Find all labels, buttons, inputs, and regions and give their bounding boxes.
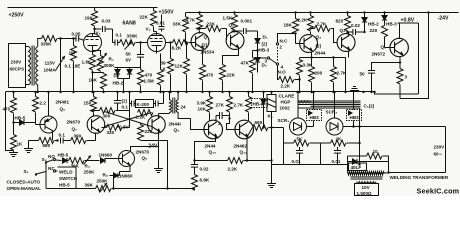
resistor 220 vertical (140, 123, 142, 125)
svg-text:(2): (2) (316, 44, 322, 49)
resistor 47K (256, 49, 258, 51)
cap 0.03 (95, 28, 102, 30)
resistor 8.2K (166, 42, 173, 44)
transistor Q4 (337, 34, 355, 52)
NC contact (53, 170, 55, 172)
wire left edge (6, 92, 14, 151)
ground on bus (350, 87, 359, 91)
HB3 box left (307, 110, 322, 121)
svg-text:470: 470 (3, 107, 11, 112)
svg-text:250K: 250K (97, 179, 109, 184)
svg-text:D₁: D₁ (263, 35, 268, 40)
svg-text:2.2K: 2.2K (281, 84, 291, 89)
svg-text:33K: 33K (173, 22, 182, 27)
resistor 2.7K (309, 27, 311, 29)
svg-text:10V: 10V (362, 185, 371, 190)
svg-text:6.8K: 6.8K (200, 178, 210, 183)
svg-text:12K: 12K (175, 64, 184, 69)
resistor 19K (94, 8, 96, 11)
V1 cathode chain 1.8K (92, 46, 94, 55)
svg-text:150: 150 (84, 101, 92, 106)
svg-text:2N462: 2N462 (234, 144, 248, 149)
svg-text:SWITCH: SWITCH (59, 176, 78, 181)
svg-text:230V: 230V (434, 145, 446, 150)
svg-text:24: 24 (181, 105, 187, 110)
left SCR vertical (283, 128, 285, 165)
svg-text:10MA: 10MA (44, 68, 57, 73)
svg-text:Q₆: Q₆ (60, 107, 66, 112)
upper-right nested wires (375, 92, 419, 94)
wire (26, 46, 29, 48)
svg-text:HB-5: HB-5 (15, 116, 26, 121)
svg-text:330: 330 (107, 130, 115, 135)
svg-text:CLOSED-AUTO: CLOSED-AUTO (7, 180, 41, 185)
emitter rail wire (300, 57, 346, 59)
transistor Q1 (191, 33, 209, 51)
svg-text:470: 470 (145, 73, 153, 78)
svg-text:0.01: 0.01 (156, 21, 165, 26)
diodes (2) HB-2 (140, 57, 142, 67)
transistor Q7 2N670 (87, 116, 105, 134)
svg-text:2K: 2K (336, 137, 343, 142)
transistor Q8 2N670 (119, 151, 135, 167)
svg-text:K₁: K₁ (268, 114, 273, 119)
svg-text:N.O: N.O (278, 70, 287, 75)
cap 0.05 (74, 38, 76, 40)
Q6 base2 line down to 680 (52, 133, 54, 141)
Q5 collector up to +0.8V node (399, 23, 401, 39)
svg-text:0.03: 0.03 (102, 19, 111, 24)
switch S2 (45, 161, 47, 163)
svg-text:0.001: 0.001 (241, 19, 253, 24)
svg-text:2N672: 2N672 (372, 52, 386, 57)
pot R2 330K (120, 40, 136, 46)
svg-text:220: 220 (370, 28, 378, 33)
Q1 emitter resistor 470 (202, 51, 204, 65)
svg-text:22K: 22K (227, 73, 236, 78)
cross-coupling wires (105, 112, 152, 127)
K-200 box with caps (128, 91, 130, 93)
svg-text:5K: 5K (297, 137, 304, 142)
svg-text:(2): (2) (122, 99, 128, 104)
svg-text:C₁(2): C₁(2) (364, 104, 375, 109)
svg-text:40LF: 40LF (351, 165, 362, 170)
svg-text:1.8K: 1.8K (82, 60, 92, 65)
svg-text:HB-3: HB-3 (253, 102, 264, 107)
diodes HB-3 pair (262, 91, 264, 93)
svg-text:(2): (2) (262, 42, 268, 47)
svg-text:R₁: R₁ (109, 57, 114, 62)
cap 0.01 right (337, 147, 339, 151)
lamp 0.1 19E (variable element) (60, 39, 62, 93)
svg-text:115V: 115V (45, 61, 56, 66)
svg-text:200: 200 (315, 71, 323, 76)
svg-text:3: 3 (265, 59, 268, 64)
transformer T1 (29, 46, 38, 86)
switch S1 (35, 173, 37, 175)
resistor 2.2K from contact 4 (278, 65, 279, 80)
ground 2 (28, 141, 30, 149)
svg-text:19K: 19K (85, 16, 94, 21)
svg-text:0.1: 0.1 (122, 105, 129, 110)
svg-text:2.2: 2.2 (40, 101, 47, 106)
svg-text:330K: 330K (127, 34, 139, 39)
40LF diode branch (347, 156, 349, 173)
svg-text:250K: 250K (84, 170, 96, 175)
SCR1 (297, 92, 299, 118)
svg-text:2N44: 2N44 (205, 144, 216, 149)
Q8 emitter (120, 166, 131, 172)
svg-text:50: 50 (360, 72, 366, 77)
-24V top rail (186, 12, 459, 14)
svg-text:0.05: 0.05 (72, 32, 81, 37)
svg-text:600: 600 (255, 120, 263, 125)
resistor 820 (347, 13, 349, 16)
svg-text:SCR₁: SCR₁ (278, 118, 290, 123)
svg-text:0.1: 0.1 (116, 33, 123, 38)
svg-text:R₅: R₅ (103, 173, 108, 178)
svg-text:10K: 10K (198, 107, 207, 112)
svg-text:27K: 27K (216, 103, 225, 108)
svg-text:Q₉: Q₉ (174, 128, 180, 133)
svg-text:Q₁₁: Q₁₁ (240, 150, 247, 155)
transistor Q5 (390, 38, 408, 56)
resistor 39K + pot R4 (69, 158, 85, 164)
cap 50/6V vertical drop (140, 43, 142, 55)
resistor 2.2K bottom (195, 160, 228, 162)
svg-text:3.9K: 3.9K (197, 101, 207, 106)
weld switch box outline (58, 166, 77, 168)
svg-text:22K: 22K (140, 15, 149, 20)
svg-text:WELDING TRANSFORMER: WELDING TRANSFORMER (390, 175, 449, 180)
svg-text:2.2K: 2.2K (136, 115, 146, 120)
svg-text:2.2K: 2.2K (298, 18, 308, 23)
resistor 2.2K (310, 13, 312, 16)
resistor 22K top (153, 8, 155, 11)
relay K1 coil (270, 91, 272, 93)
transformer T2 24 (170, 92, 172, 114)
svg-text:6V: 6V (126, 58, 133, 63)
230V source right (445, 127, 447, 173)
svg-text:S₁: S₁ (24, 169, 29, 174)
svg-text:300K: 300K (104, 63, 116, 68)
svg-text:300: 300 (103, 114, 111, 119)
svg-text:2.2K: 2.2K (228, 167, 238, 172)
svg-text:2N670: 2N670 (67, 120, 81, 125)
transistor Q11 2N462 (235, 120, 254, 139)
cap 2 coupling Q10-Q11 (215, 116, 217, 122)
svg-text:K-200: K-200 (137, 102, 150, 107)
svg-text:SCR₂: SCR₂ (326, 110, 338, 115)
wire (26, 84, 29, 86)
resistor 680 (29, 140, 39, 142)
tube V2 (148, 34, 166, 52)
svg-text:470: 470 (206, 73, 214, 78)
svg-text:Q₁₀: Q₁₀ (209, 150, 217, 155)
cap (2) 0.1 (116, 91, 118, 93)
svg-text:820: 820 (336, 19, 344, 24)
resistor 1M (71, 46, 77, 62)
resistor 390 (71, 138, 87, 144)
svg-text:N.C: N.C (280, 39, 289, 44)
resistor 150 (92, 91, 94, 93)
resistor 2.2 (34, 91, 36, 93)
wire secondary bottom to bus (37, 85, 39, 93)
diode D1 (257, 31, 259, 39)
resistor 18K (295, 13, 297, 19)
svg-text:-24V: -24V (438, 16, 449, 22)
svg-text:18K: 18K (89, 78, 98, 83)
svg-text:1N660: 1N660 (99, 153, 113, 158)
resistor 1.5K (234, 13, 236, 15)
svg-text:HB-3: HB-3 (386, 22, 397, 27)
svg-text:V₁: V₁ (96, 31, 101, 36)
diode D2 (255, 58, 260, 63)
transformer core (351, 176, 383, 178)
svg-text:390: 390 (74, 134, 82, 139)
svg-text:2N491: 2N491 (56, 100, 70, 105)
svg-text:Q₃: Q₃ (316, 35, 322, 40)
resistor 1K (11, 135, 17, 151)
resistor 2.7K (247, 91, 249, 93)
svg-text:0.1: 0.1 (59, 133, 66, 138)
svg-text:22K: 22K (207, 22, 216, 27)
svg-text:HB-2: HB-2 (113, 81, 124, 86)
svg-text:HB-5: HB-5 (59, 183, 70, 188)
svg-text:CLARE: CLARE (279, 94, 295, 99)
svg-text:1K: 1K (17, 142, 24, 147)
resistor 330K (42, 36, 58, 42)
HB3 box right (347, 110, 362, 121)
svg-text:1.5K: 1.5K (223, 16, 233, 21)
resistor 39K lower + pot R5 (46, 188, 96, 190)
label 10V 1500 box (355, 184, 379, 196)
Q5 emitter + 3 ohm (399, 57, 401, 69)
svg-text:1N660: 1N660 (119, 174, 133, 179)
wire secondary top (38, 39, 42, 47)
resistor 12K vertical (186, 43, 188, 59)
svg-text:HB-5: HB-5 (58, 153, 69, 158)
svg-text:6AN8: 6AN8 (123, 21, 136, 27)
svg-text:0.01: 0.01 (332, 159, 341, 164)
svg-text:39K: 39K (85, 183, 94, 188)
svg-text:2.7K: 2.7K (234, 103, 244, 108)
UJT Q6 2N491 (40, 116, 57, 133)
switch S3 contacts (276, 43, 278, 45)
svg-text:2N44: 2N44 (315, 51, 326, 56)
svg-text:Q₄: Q₄ (340, 28, 346, 33)
svg-text:1002: 1002 (280, 106, 291, 111)
svg-text:18K: 18K (284, 23, 293, 28)
cap 0.1 (113, 42, 115, 44)
svg-text:2N44I: 2N44I (169, 122, 181, 127)
svg-text:39K: 39K (71, 164, 80, 169)
resistor 2.7K (332, 56, 334, 58)
svg-text:HB-3: HB-3 (259, 48, 270, 53)
resistor 4.7K (199, 13, 201, 15)
svg-text:HB3: HB3 (310, 115, 320, 120)
wire Q10 collector to Q11 base via 27K node (227, 117, 240, 130)
Q9 emitter down (158, 131, 160, 141)
svg-text:60CPS: 60CPS (10, 67, 25, 72)
ground (9, 153, 18, 157)
resistor 220 (382, 26, 388, 37)
svg-text:+250V: +250V (9, 13, 25, 19)
resistor 1.5M vertical (160, 54, 162, 70)
svg-text:V₂: V₂ (146, 27, 151, 32)
Q10 emitter / Q11 emitter joins (195, 137, 216, 161)
svg-text:(2): (2) (202, 43, 208, 48)
resistor 27K (228, 91, 230, 93)
resistor 3.9K/10K (208, 91, 210, 93)
svg-text:Q₈: Q₈ (142, 156, 148, 161)
resistor 3.3K (299, 58, 301, 60)
svg-text:2.7K: 2.7K (317, 22, 327, 27)
cap 50 electrolytic (372, 63, 401, 71)
bottom line of SCR block (284, 164, 348, 166)
svg-text:2.7K: 2.7K (337, 71, 347, 76)
resistor 18K (91, 71, 93, 73)
resistor 2.2K diagonal tap (138, 110, 154, 116)
svg-text:60∼: 60∼ (434, 152, 443, 157)
welding transformer primary (348, 172, 385, 176)
svg-text:WELD: WELD (59, 170, 73, 175)
svg-text:0.1 19E: 0.1 19E (65, 64, 81, 69)
svg-text:1,500Ω: 1,500Ω (357, 191, 372, 196)
svg-text:39: 39 (161, 61, 167, 66)
svg-text:2: 2 (218, 121, 221, 126)
resistor 470 vertical (140, 68, 142, 70)
wire (58, 38, 74, 40)
transistor Q3 (300, 35, 318, 53)
SCR2 (334, 92, 336, 118)
svg-text:8.2K: 8.2K (172, 46, 182, 51)
Q4 emitter wire (348, 51, 350, 58)
Q8 collector wire (131, 147, 159, 165)
pot 5K (294, 140, 310, 146)
transistor Q10 2N44 (204, 120, 223, 139)
svg-text:HB3: HB3 (350, 115, 360, 120)
svg-text:Q₇: Q₇ (72, 127, 78, 132)
transistor Q9 2N441 (148, 116, 166, 134)
230V source box (9, 44, 26, 88)
+250V rail (8, 7, 158, 9)
diode HB-5 (12, 121, 14, 123)
svg-text:Q₁: Q₁ (204, 35, 210, 40)
left 470 resistor below bus (12, 91, 14, 93)
SCR block wires (296, 91, 298, 93)
reactor winding C1 (299, 101, 311, 103)
resistor 300 (92, 109, 94, 111)
secondary winding (357, 182, 377, 184)
wire S2 pole down to bottom (45, 163, 47, 189)
mid ground bus (6, 91, 376, 93)
svg-text:2N670: 2N670 (136, 150, 150, 155)
cap 0.02 (346, 31, 348, 33)
svg-text:230V: 230V (11, 60, 23, 65)
svg-text:+150V: +150V (159, 10, 175, 16)
transistor Q2 (226, 32, 244, 50)
svg-text:HGP: HGP (281, 100, 291, 105)
svg-text:R₄: R₄ (85, 164, 91, 169)
svg-text:47K: 47K (241, 61, 250, 66)
svg-text:680: 680 (43, 143, 51, 148)
Q9 collector to transformer (158, 114, 160, 118)
pot R1 300K (93, 51, 101, 56)
svg-text:SeekIC.com: SeekIC.com (417, 187, 460, 196)
svg-text:330K: 330K (41, 42, 53, 47)
svg-text:S₂: S₂ (42, 157, 47, 162)
svg-text:HB-2: HB-2 (368, 22, 379, 27)
svg-text:(2): (2) (114, 73, 120, 78)
svg-text:10: 10 (373, 149, 379, 154)
diodes HB-2 HB-3 string (364, 13, 366, 18)
resistor 200 (310, 56, 312, 58)
svg-text:3: 3 (405, 75, 408, 80)
svg-text:1.5M: 1.5M (144, 79, 154, 84)
wire 0.03 down to 0.1 node (112, 29, 114, 43)
resistor 33K from -24V rail (185, 13, 187, 17)
ground bottom middle (270, 159, 272, 161)
resistor 39K vertical (170, 43, 172, 59)
wire 0.02/6.8K branch (193, 159, 195, 161)
svg-text:50: 50 (126, 52, 132, 57)
Q2 emitter resistor 22K (223, 48, 239, 65)
resistor 10 (367, 153, 383, 159)
cap 0.001 (233, 30, 235, 32)
svg-text:OPEN-MANUAL: OPEN-MANUAL (7, 186, 42, 191)
svg-text:2: 2 (280, 45, 283, 50)
resistor 330 (102, 127, 107, 129)
pot 2K (321, 142, 331, 144)
svg-text:NC: NC (48, 166, 55, 171)
cap 0.1 (61, 138, 64, 144)
svg-text:4.7K: 4.7K (186, 18, 196, 23)
svg-text:1M: 1M (69, 51, 76, 56)
svg-text:0.02: 0.02 (351, 23, 360, 28)
wire from T2 to Q10 base (191, 119, 209, 130)
resistor 22K coupling (198, 27, 200, 29)
svg-text:0.02: 0.02 (200, 167, 209, 172)
tube V1 (84, 34, 102, 52)
wires from NO contact (56, 159, 62, 162)
